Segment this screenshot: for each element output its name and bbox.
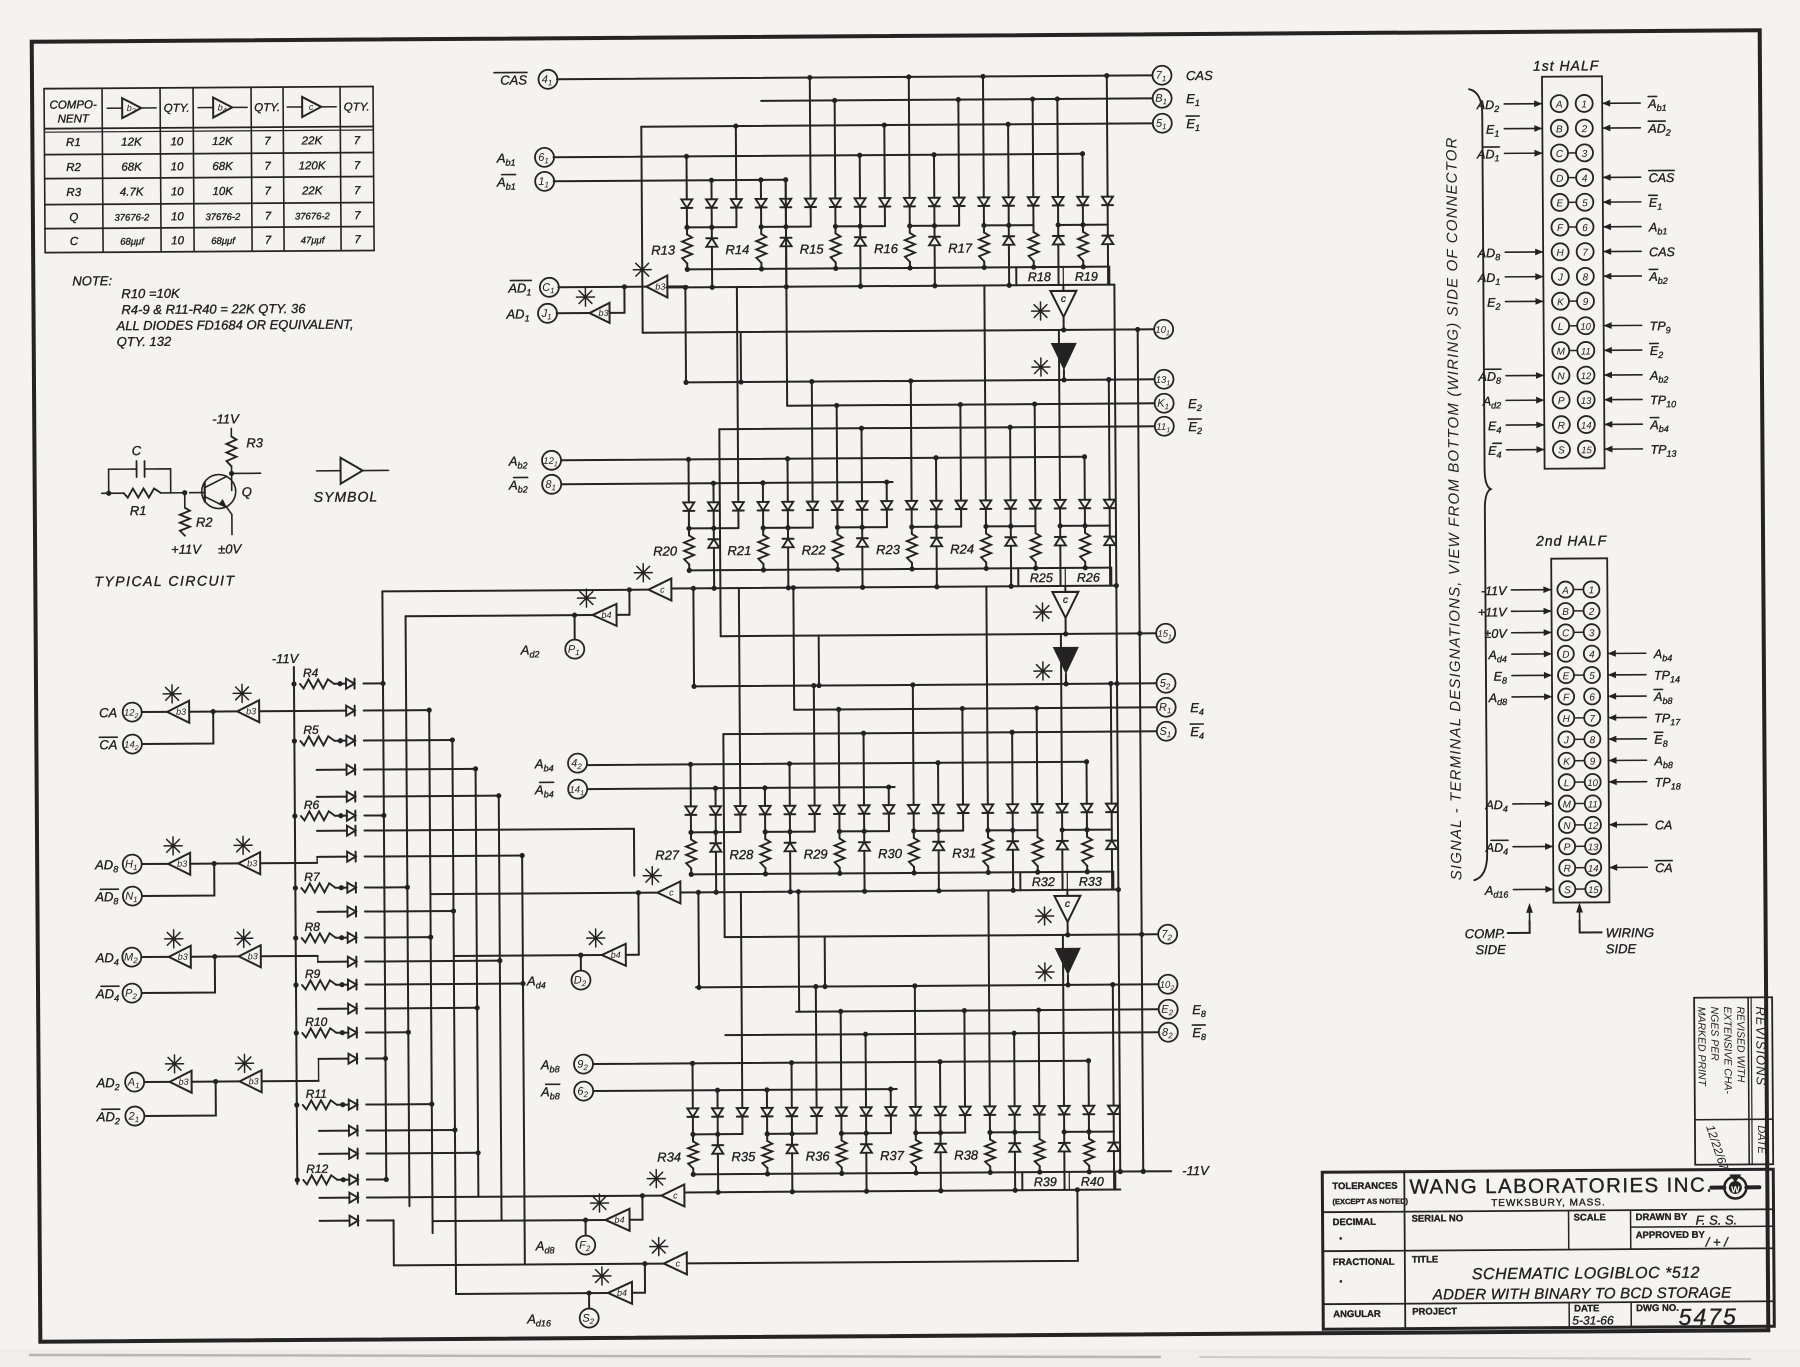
terminal 12-1 Ab2 [542, 451, 561, 470]
resistor R36 [840, 1133, 842, 1140]
svg-text:SERIAL NO: SERIAL NO [1412, 1213, 1464, 1224]
svg-text:R25: R25 [1030, 571, 1053, 585]
svg-text:B: B [1556, 124, 1563, 135]
svg-text:·: · [1339, 1230, 1344, 1246]
diode row2 [1012, 830, 1014, 841]
svg-text:E1: E1 [1486, 123, 1499, 139]
svg-text:37676-2: 37676-2 [205, 212, 241, 223]
ladder diode row [318, 1008, 348, 1010]
resistor R13 [686, 227, 688, 234]
mesh wire vertical [522, 856, 525, 1265]
svg-text:b4: b4 [615, 1215, 625, 1225]
diode row1 col3 [760, 180, 762, 199]
svg-text:14: 14 [1588, 864, 1599, 875]
diode matrix M1 [557, 75, 1152, 79]
ladder diode row [316, 710, 346, 712]
svg-text:10K: 10K [212, 186, 234, 198]
svg-text:TP18: TP18 [1655, 775, 1681, 791]
terminal 8-1 Ab2-bar [542, 475, 561, 494]
diode row1 col3 [766, 1090, 768, 1108]
diode row1 col12 [982, 76, 985, 197]
diode row1 col0 [692, 1063, 694, 1108]
diode row1 col10 [935, 458, 937, 501]
diode row1 col9 [910, 381, 913, 501]
right terminals M2 [1154, 370, 1173, 389]
svg-text:E1: E1 [1186, 116, 1200, 133]
ladder diode row [318, 911, 348, 913]
svg-text:AD2: AD2 [96, 1075, 120, 1092]
svg-text:C1: C1 [542, 282, 554, 296]
diode row1 col16 [1081, 154, 1083, 197]
wire [364, 709, 429, 711]
svg-text:-11V: -11V [1481, 584, 1508, 598]
wire [364, 795, 498, 798]
ladder diode row [320, 1220, 350, 1222]
diode row1 col12 [984, 285, 985, 500]
svg-text:b3: b3 [178, 952, 188, 962]
pin L/10 (2nd) [1559, 774, 1575, 790]
svg-text:C: C [132, 443, 142, 458]
buffer b4 [1052, 344, 1075, 368]
svg-text:E: E [1563, 671, 1570, 682]
svg-text:+11V: +11V [171, 542, 202, 557]
pin H/7 (2nd) [1558, 710, 1574, 726]
svg-text:R13: R13 [651, 242, 676, 257]
svg-text:D: D [1562, 650, 1569, 661]
terminal P [565, 640, 584, 659]
svg-text:R4: R4 [303, 666, 319, 680]
svg-text:+11V: +11V [1478, 605, 1508, 619]
svg-text:R14: R14 [725, 242, 749, 257]
svg-text:AD4: AD4 [95, 950, 119, 967]
resistor R23 [911, 527, 913, 534]
diode row1 col6 [838, 709, 841, 805]
svg-text:92: 92 [577, 1059, 588, 1073]
svg-text:AD1: AD1 [1477, 271, 1500, 287]
svg-text:15: 15 [1581, 445, 1592, 456]
pin N/12 (2nd) [1559, 817, 1575, 833]
svg-text:F: F [1563, 693, 1570, 704]
buffer b4 [626, 954, 639, 956]
terminal 101 [1154, 320, 1173, 339]
svg-text:7: 7 [265, 235, 272, 247]
pin J/8 (2nd) [1558, 731, 1574, 747]
box R32/R33 [1019, 872, 1021, 890]
wire [364, 739, 452, 742]
svg-text:DWG NO.: DWG NO. [1636, 1303, 1679, 1314]
resistor [1086, 830, 1088, 837]
component table [44, 86, 373, 88]
diode row2 [863, 831, 865, 842]
pin B/2 (2nd) [1557, 603, 1573, 619]
svg-text:CAS: CAS [1649, 245, 1675, 259]
svg-text:111: 111 [1156, 422, 1170, 435]
diode row2 [787, 528, 789, 539]
right terminals M3 [1156, 674, 1175, 693]
diode row1 col8 [888, 787, 890, 805]
svg-text:P2: P2 [125, 988, 137, 1002]
diode row1 col1 [710, 180, 712, 199]
svg-text:E2: E2 [1650, 344, 1663, 360]
diode row1 col13 [1009, 427, 1011, 500]
svg-text:5475: 5475 [1679, 1303, 1738, 1329]
buffer c [1066, 890, 1068, 896]
svg-text:F: F [1557, 223, 1564, 234]
svg-text:37676-2: 37676-2 [114, 212, 150, 223]
svg-text:AD2: AD2 [96, 1109, 120, 1126]
svg-text:68μμf: 68μμf [120, 236, 145, 247]
svg-text:101: 101 [1155, 325, 1170, 338]
ladder diode row [319, 1197, 349, 1199]
diode row1 col17 [1110, 684, 1113, 804]
svg-text:A: A [1555, 100, 1563, 111]
svg-text:Ab2: Ab2 [508, 453, 528, 470]
svg-text:R40: R40 [1081, 1175, 1104, 1189]
svg-text:TOLERANCES: TOLERANCES [1332, 1181, 1397, 1192]
svg-text:TYPICAL CIRCUIT: TYPICAL CIRCUIT [94, 572, 235, 589]
buffer c [657, 881, 680, 903]
svg-text:Ab1: Ab1 [1648, 220, 1667, 236]
out-line corners joining next bus [740, 332, 742, 382]
svg-text:R17: R17 [948, 241, 973, 256]
diode row1 col2 [739, 588, 740, 806]
buffer c [648, 579, 671, 601]
svg-text:7: 7 [354, 185, 361, 197]
mesh wire vertical [429, 710, 432, 1233]
diode row2 [713, 528, 715, 539]
ladder diode row [317, 856, 347, 858]
svg-text:-11V: -11V [212, 411, 240, 426]
resistor R8 [293, 935, 298, 940]
resistor R29 [838, 831, 840, 838]
svg-text:R30: R30 [878, 846, 903, 861]
svg-text:10: 10 [170, 136, 183, 148]
svg-text:b3: b3 [247, 858, 257, 868]
svg-text:ALL DIODES FD1684 OR EQUIVALEN: ALL DIODES FD1684 OR EQUIVALENT, [116, 317, 354, 334]
diode row1 col2 [735, 126, 737, 199]
svg-text:6: 6 [1589, 692, 1595, 703]
svg-text:N: N [1557, 371, 1565, 382]
diode row1 col15 [1061, 634, 1062, 804]
pin H/7 [1552, 243, 1569, 260]
svg-text:R7: R7 [304, 870, 321, 884]
in2 to bus2 drop wires [786, 180, 787, 406]
svg-text:Ab8: Ab8 [540, 1084, 560, 1101]
terminal 9-2 Ab8 [574, 1055, 593, 1074]
svg-text:F2: F2 [579, 1240, 591, 1254]
wire [364, 768, 475, 771]
diode row1 col1 [712, 483, 714, 502]
svg-text:b3: b3 [176, 707, 186, 717]
resistor R15 [834, 226, 836, 233]
svg-text:R16: R16 [874, 241, 899, 256]
buffer b3 #2 [557, 312, 590, 314]
buffer b3 #1 [558, 286, 646, 289]
diode row1 col0 [688, 459, 690, 502]
svg-text:QTY.: QTY. [254, 102, 280, 114]
svg-text:R26: R26 [1077, 571, 1100, 585]
svg-text:AD2: AD2 [1476, 98, 1499, 114]
svg-text:7: 7 [264, 136, 271, 148]
pin K/9 (2nd) [1558, 753, 1574, 769]
pin D/4 [1551, 169, 1568, 186]
svg-text:SIDE: SIDE [1606, 941, 1637, 956]
box R25/R26 [1017, 568, 1019, 586]
svg-text:REVISED WITH: REVISED WITH [1734, 1006, 1747, 1082]
resistor R6 [292, 813, 297, 818]
diode row1 col14 [1034, 404, 1037, 500]
output line [721, 633, 1156, 636]
buffer b4 [630, 1219, 643, 1221]
svg-text:F. S. S.: F. S. S. [1696, 1212, 1738, 1227]
svg-text:EXTENSIVE CHA-: EXTENSIVE CHA- [1721, 1006, 1734, 1094]
svg-text:H: H [1563, 714, 1571, 725]
svg-text:QTY.: QTY. [344, 102, 370, 114]
svg-text:62: 62 [577, 1086, 588, 1100]
svg-text:TP9: TP9 [1650, 319, 1671, 335]
mesh wire vertical [406, 616, 410, 1206]
diode row1 col16 [1084, 457, 1086, 500]
svg-text:9: 9 [1590, 757, 1596, 768]
wire [366, 1031, 408, 1033]
diode row1 col17 [1112, 985, 1115, 1106]
resistor R37 [915, 1133, 917, 1140]
svg-text:/ + /: / + / [1705, 1235, 1730, 1250]
box R39/R40 [1021, 1172, 1023, 1190]
resistor R20 [688, 528, 690, 535]
ladder diode row [319, 1130, 349, 1132]
mesh wire vertical [382, 591, 386, 1179]
diode row1 col13 [1013, 1033, 1015, 1106]
svg-text:E4: E4 [1488, 444, 1501, 460]
diode row2 [715, 832, 717, 843]
resistor R12 [295, 1177, 300, 1182]
mesh wire vertical [499, 796, 502, 1221]
symbol [317, 470, 341, 472]
svg-text:4: 4 [1582, 174, 1588, 185]
terminal 72 [1158, 925, 1177, 944]
diode row1 col9 [908, 77, 911, 198]
svg-text:Ab8: Ab8 [1653, 754, 1672, 770]
capacitor C [109, 469, 137, 493]
svg-text:141: 141 [569, 785, 584, 798]
buffer b4 [1056, 949, 1079, 973]
svg-text:C: C [70, 236, 79, 248]
svg-text:Ab8: Ab8 [1653, 690, 1672, 706]
vertical bus x=1117 [1114, 285, 1120, 1172]
resistor R9 [293, 982, 298, 987]
bottom rails [689, 568, 1111, 571]
diode row1 col12 [988, 890, 989, 1106]
diode row1 col3 [762, 483, 764, 502]
svg-text:c: c [669, 888, 674, 898]
wire [366, 1129, 454, 1132]
svg-text:10: 10 [171, 161, 184, 173]
svg-text:J: J [1563, 735, 1570, 746]
svg-text:c: c [1061, 294, 1066, 305]
diode matrix M4 [696, 984, 1158, 987]
svg-text:E8: E8 [1192, 1002, 1206, 1019]
svg-text:Ad2: Ad2 [1482, 394, 1501, 410]
mesh wire vertical [476, 769, 479, 1197]
svg-text:R3: R3 [66, 187, 81, 199]
terminal 151 [1156, 624, 1175, 643]
svg-text:R: R [1558, 421, 1565, 432]
svg-text:122: 122 [124, 708, 139, 721]
svg-text:TEWKSBURY, MASS.: TEWKSBURY, MASS. [1491, 1197, 1606, 1209]
wire to A_d16 chain [367, 1220, 394, 1265]
svg-text:R19: R19 [1075, 270, 1098, 284]
svg-text:7: 7 [265, 211, 272, 223]
svg-text:b3: b3 [246, 706, 256, 716]
diode row1 col6 [836, 405, 839, 501]
svg-text:b4: b4 [611, 950, 621, 960]
wire [364, 814, 383, 816]
svg-text:D: D [1556, 174, 1563, 185]
svg-text:-11V: -11V [272, 651, 300, 666]
svg-text:NENT: NENT [58, 113, 90, 125]
pin A/1 [1551, 95, 1568, 112]
ladder diode row [317, 769, 347, 771]
svg-text:R11: R11 [306, 1087, 327, 1101]
svg-text:1st HALF: 1st HALF [1533, 57, 1600, 73]
svg-text:DATE: DATE [1755, 1125, 1767, 1154]
diode row1 col10 [939, 1062, 941, 1107]
revisions block [1694, 997, 1773, 1165]
svg-text:Ad16: Ad16 [1484, 884, 1508, 900]
svg-text:E2: E2 [1487, 296, 1500, 312]
svg-text:82: 82 [1162, 1027, 1173, 1041]
svg-text:R23: R23 [876, 542, 901, 557]
diode row2 [1113, 1132, 1115, 1143]
diode row1 col16 [1086, 762, 1088, 804]
bottom rails [687, 267, 1109, 270]
svg-text:142: 142 [124, 740, 139, 753]
diode row1 col8 [886, 482, 888, 501]
svg-text:Ab1: Ab1 [496, 175, 516, 192]
svg-text:Ad4: Ad4 [526, 973, 546, 990]
svg-text:4: 4 [1589, 650, 1595, 661]
svg-text:J: J [1557, 272, 1564, 283]
svg-text:Ab8: Ab8 [540, 1057, 560, 1074]
pin R/14 (2nd) [1559, 860, 1575, 876]
svg-text:b3: b3 [598, 308, 608, 318]
resistor R34 [692, 1134, 694, 1141]
diode matrix M2 [686, 379, 1154, 382]
svg-text:SIGNAL - TERMINAL DESIGNATIONS: SIGNAL - TERMINAL DESIGNATIONS, VIEW FRO… [1443, 136, 1465, 880]
wang logo [1711, 1174, 1759, 1198]
diode row2 [1063, 1132, 1065, 1143]
svg-text:Ad4: Ad4 [1487, 648, 1506, 664]
terminal S [580, 1309, 599, 1328]
svg-text:120K: 120K [299, 160, 327, 172]
svg-text:Ab4: Ab4 [1653, 647, 1672, 663]
resistor R5 [292, 738, 297, 743]
svg-text:b3: b3 [248, 951, 258, 961]
svg-text:CA: CA [99, 705, 117, 720]
svg-text:CAS: CAS [1649, 171, 1675, 185]
diode row1 col4 [789, 764, 791, 806]
svg-text:NGES PER: NGES PER [1708, 1007, 1720, 1062]
diode row1 col2 [741, 892, 742, 1108]
svg-text:c: c [309, 102, 314, 112]
svg-text:68K: 68K [212, 161, 234, 173]
svg-text:Ab4: Ab4 [534, 756, 554, 773]
svg-text:7: 7 [354, 135, 361, 147]
svg-text:R33: R33 [1079, 875, 1102, 889]
svg-text:E4: E4 [1190, 700, 1204, 717]
svg-text:22K: 22K [301, 185, 324, 197]
diode row2 [939, 1133, 941, 1144]
pin F/6 (2nd) [1558, 689, 1574, 705]
svg-text:6: 6 [1582, 223, 1588, 234]
diode row1 col14 [1038, 1010, 1041, 1106]
diode row1 col1 [714, 788, 716, 806]
diode row1 col6 [840, 1011, 843, 1107]
svg-text:D2: D2 [574, 975, 587, 989]
resistor R17 [983, 225, 985, 232]
svg-text:E1: E1 [1186, 91, 1200, 108]
diode row2 [861, 527, 863, 538]
svg-text:E8: E8 [1494, 670, 1507, 686]
svg-text:2: 2 [1588, 607, 1595, 618]
diode row1 col5 [815, 987, 818, 1108]
svg-text:R10: R10 [305, 1015, 327, 1029]
resistor R28 [764, 832, 766, 839]
svg-text:CAS: CAS [500, 72, 527, 87]
svg-text:Ab4: Ab4 [1649, 418, 1668, 434]
ladder diode row [318, 1058, 348, 1060]
resistor R30 [913, 831, 915, 838]
buffer b4 [632, 1292, 645, 1294]
svg-text:R: R [1564, 864, 1571, 875]
svg-text:c: c [660, 585, 665, 595]
diode row1 col15 [1056, 99, 1059, 197]
svg-text:R12: R12 [306, 1162, 328, 1176]
svg-text:14: 14 [1581, 421, 1592, 432]
pin C/3 (2nd) [1558, 624, 1574, 640]
svg-text:AD1: AD1 [507, 280, 531, 297]
terminal 4-2 Ab4 [568, 754, 587, 773]
svg-text:b3: b3 [249, 1076, 259, 1086]
diode row1 col3 [764, 788, 766, 806]
svg-text:PROJECT: PROJECT [1412, 1306, 1457, 1317]
terminal F [576, 1236, 595, 1255]
svg-text:R38: R38 [954, 1147, 979, 1162]
svg-text:Ab4: Ab4 [534, 782, 554, 799]
svg-text:CA: CA [99, 737, 117, 752]
diode row1 col16 [1088, 1061, 1090, 1106]
resistor R21 [762, 528, 764, 535]
wire row 827 [317, 830, 347, 832]
resistor R24 [985, 526, 987, 533]
pin E/5 (2nd) [1558, 667, 1574, 683]
wire [365, 910, 453, 913]
svg-text:b3: b3 [655, 282, 665, 292]
svg-text:M: M [1557, 347, 1566, 358]
svg-text:68K: 68K [121, 162, 143, 174]
diode row1 col2 [737, 287, 738, 502]
svg-text:SIDE: SIDE [1475, 942, 1506, 957]
diode row1 col1 [716, 1090, 718, 1108]
svg-text:N1: N1 [125, 891, 137, 905]
svg-text:Ab1: Ab1 [496, 151, 516, 168]
svg-text:AD8: AD8 [94, 889, 118, 906]
svg-text:121: 121 [543, 456, 558, 469]
resistor R10 [294, 1030, 299, 1035]
svg-text:±0V: ±0V [1484, 627, 1508, 641]
scan artifact band at bottom [0, 1349, 1800, 1367]
